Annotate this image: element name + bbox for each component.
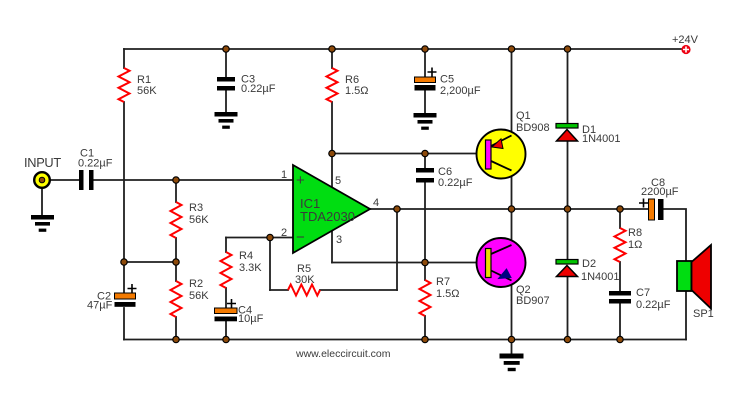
ground (main, below Q2 emitter) [500,354,524,372]
diode D1 [556,124,578,142]
wire: C7 bottom plate to bottom rail [619,303,621,340]
wire: C8 right plate to speaker corner [663,209,686,261]
node: bottom rail / R2 [173,336,179,342]
svg-text:2,200µF: 2,200µF [440,85,481,97]
svg-text:3.3K: 3.3K [239,262,262,274]
diode D2 [556,260,578,277]
node: input / R3 / pin1 [173,177,179,183]
svg-text:1N4001: 1N4001 [581,271,620,283]
wire: INPUT jack to C1 left plate [50,179,79,181]
terminal INPUT jack [34,172,50,188]
svg-text:30K: 30K [295,274,315,286]
node: top rail / C3 [223,46,229,52]
wire: R6 bottom lead to base node [331,102,333,154]
svg-text:5: 5 [335,175,341,187]
label C4 polarity + [227,299,236,308]
wire: C1 right plate to input node [93,179,176,181]
wire: R4 top lead to pin2 node [226,237,270,239]
svg-text:1.5Ω: 1.5Ω [436,288,460,300]
node: R6 / pin5 / upper base line [329,150,335,156]
svg-text:+24V: +24V [672,34,699,46]
svg-text:1N4001: 1N4001 [582,133,621,145]
capacitor C1 [79,170,94,190]
svg-text:0.22µF: 0.22µF [241,83,276,95]
wire: C3 bottom plate to ground [225,90,227,112]
node: top rail / Q1 emitter [508,46,514,52]
node: bottom rail / R7 [422,336,428,342]
op-amp IC1 TDA2030 [293,165,370,253]
wire: divider node across to C2 node [124,261,176,263]
capacitor C4 (electrolytic) [215,308,238,321]
svg-text:56K: 56K [189,290,209,302]
wire: C2 node to C2 top plate [123,262,125,293]
node: top rail / R6 [329,46,335,52]
wire: C6 bottom plate down across output line to lower node [424,182,426,263]
resistor R3 [171,202,182,238]
svg-text:1.5Ω: 1.5Ω [345,85,369,97]
wire: R8 top lead from output line [619,209,621,228]
capacitor C3 [217,77,235,91]
wire: R2 bottom to bottom rail [175,317,177,340]
node: bottom rail / C7 [617,336,623,342]
node: C2 top [121,259,127,265]
svg-text:4: 4 [373,197,379,209]
svg-text:Q1: Q1 [516,110,531,122]
node: C6 top [422,150,428,156]
terminal +24V [681,45,690,54]
svg-text:D2: D2 [582,258,596,270]
wire: base node down to IC1 pin 5 [331,154,333,188]
capacitor C5 (electrolytic) [415,77,436,91]
capacitor C7 [609,291,631,304]
capacitor C2 (electrolytic) [115,293,136,307]
node: bottom rail / Q2 emitter / ground [508,336,514,342]
wire: D2 cathode lead from output line [567,209,569,260]
transistor Q1 BD908 [477,130,526,179]
svg-text:C7: C7 [636,287,650,299]
svg-text:3: 3 [336,234,342,246]
wire: INPUT jack to ground [41,188,43,215]
node: top rail / D1 [564,46,570,52]
svg-text:R4: R4 [239,250,253,262]
resistor R4 [221,252,232,288]
wire: C5 bottom plate to ground [424,90,426,114]
svg-text:−: − [296,229,305,246]
wire: input node to IC1 pin 1 [176,179,293,181]
svg-text:R7: R7 [436,276,450,288]
svg-text:56K: 56K [137,85,157,97]
label C8 polarity + [639,199,648,208]
wire: D1 top lead from rail [567,49,569,124]
node: pin2 / R4 / feedback [267,234,273,240]
wire: C6 top lead from upper base line [424,154,426,169]
node: bottom rail / D2 [564,336,570,342]
wire: R5 left lead to pin2 node [270,289,288,291]
wire: C4 bottom plate to bottom rail [225,321,227,340]
svg-text:BD907: BD907 [516,295,550,307]
wire: pin2 node riser [269,238,271,291]
wire: R4 top riser [225,238,227,253]
svg-text:10µF: 10µF [238,313,264,325]
wire: Q2 emitter lead to ground node [511,281,513,340]
speaker SP1 [677,245,711,309]
wire: IC1 pin 3 drop [331,231,333,263]
wire: R8 bottom to C7 top [619,262,621,291]
node: divider R3/R2 [173,259,179,265]
capacitor C8 (electrolytic, horizontal) [649,199,664,220]
ground (C5) [414,113,437,130]
wire: bottom ground rail [124,339,686,341]
svg-text:R3: R3 [189,202,203,214]
node: top rail / C5 [422,46,428,52]
transistor Q2 BD907 [477,238,526,287]
svg-text:INPUT: INPUT [24,155,61,170]
resistor R8 [615,228,626,262]
svg-text:0.22µF: 0.22µF [636,299,671,311]
wire: top +24V rail [124,48,681,50]
label C2 polarity + [128,284,137,293]
resistor R6 [327,68,338,102]
wire: Q2 collector lead from output line [511,209,513,245]
wire: R6 top lead from rail [331,49,333,68]
svg-text:TDA2030: TDA2030 [300,209,355,224]
node: pin3 line / C6-R7 / Q2 base [422,259,428,265]
capacitor C6 [416,168,434,183]
svg-text:BD908: BD908 [516,122,550,134]
svg-text:56K: 56K [189,214,209,226]
resistor R7 [420,280,431,316]
resistor R1 [119,68,130,102]
wire: Q1 emitter lead from rail [511,49,513,136]
svg-text:www.eleccircuit.com: www.eleccircuit.com [295,348,391,360]
wire: D1 anode to output line [567,141,569,209]
label C5 polarity + [428,68,437,77]
svg-text:47µF: 47µF [87,300,113,312]
wire: pin 3 line to lower base node [332,262,425,264]
node: output / D1-D2 [564,206,570,212]
node: output / Q1-Q2 collectors [508,206,514,212]
ground (input jack) [31,215,54,232]
wire: R7 bottom to bottom rail [424,316,426,340]
node: output / R8 [617,206,623,212]
wire: divider node to R2 top [175,262,177,281]
wire: Q2 ground stub [511,340,513,354]
node: bottom rail / C4 [223,336,229,342]
wire: input node down to R3 [175,180,177,202]
svg-text:2: 2 [281,227,287,239]
wire: upper base line to Q1 base [332,153,486,155]
wire: feedback drop from output node [396,209,398,290]
svg-text:SP1: SP1 [693,308,714,320]
wire: C2 bottom plate to bottom rail corner [123,308,125,340]
wire: C3 top lead from rail [225,49,227,77]
wire: R1 top lead from rail [123,49,125,68]
wire: D2 anode to bottom rail [567,276,569,340]
ground (C3) [215,112,238,129]
svg-text:R2: R2 [189,278,203,290]
svg-text:R8: R8 [628,227,642,239]
wire: R7 node to R7 top [424,263,426,281]
wire: lower base line to Q2 base [425,262,486,264]
wire: feedback line to R5 [320,289,397,291]
svg-text:0.22µF: 0.22µF [78,158,113,170]
resistor R5 [288,285,320,296]
wire: R4 bottom to C4 [225,288,227,308]
svg-text:+: + [296,172,305,189]
wire: speaker bottom to bottom rail [685,291,687,340]
wire: pin2 node to IC1 pin 2 [270,237,293,239]
svg-text:2200µF: 2200µF [641,186,679,198]
node: output / feedback [394,206,400,212]
wire: C5 top lead from rail [424,49,426,77]
svg-text:0.22µF: 0.22µF [438,177,473,189]
svg-text:1: 1 [281,169,287,181]
svg-text:1Ω: 1Ω [628,239,642,251]
wire: R1 bottom lead down left column to C2 node [123,102,125,262]
wire: Q1 collector lead to output line [511,171,513,210]
svg-text:C5: C5 [440,74,454,86]
wire: IC1 output line [370,208,648,210]
resistor R2 [171,281,182,317]
wire: R3 bottom to divider node [175,238,177,262]
